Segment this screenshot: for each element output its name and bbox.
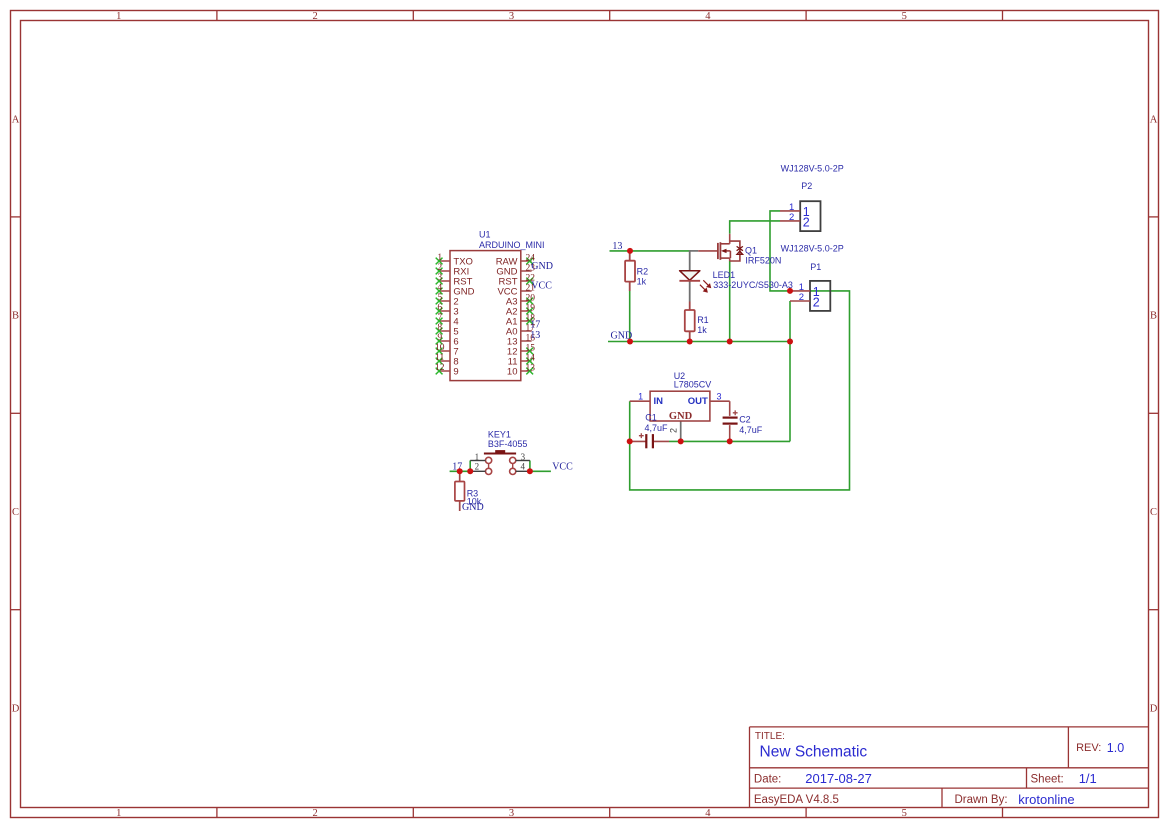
svg-text:Sheet:: Sheet: bbox=[1031, 774, 1064, 786]
svg-text:C: C bbox=[12, 507, 19, 518]
svg-text:P2: P2 bbox=[801, 181, 812, 191]
svg-text:WJ128V-5.0-2P: WJ128V-5.0-2P bbox=[781, 244, 844, 254]
junction node GND/P1 pin2 bbox=[787, 339, 793, 345]
svg-text:3: 3 bbox=[509, 11, 514, 22]
svg-text:8: 8 bbox=[437, 323, 442, 333]
svg-text:4,7uF: 4,7uF bbox=[739, 425, 763, 435]
svg-text:Drawn By:: Drawn By: bbox=[955, 794, 1008, 806]
svg-text:333-2UYC/S530-A3: 333-2UYC/S530-A3 bbox=[713, 280, 793, 290]
svg-text:C2: C2 bbox=[739, 415, 751, 425]
svg-text:13: 13 bbox=[530, 330, 540, 341]
svg-text:3: 3 bbox=[437, 273, 442, 283]
svg-text:2: 2 bbox=[803, 215, 810, 229]
svg-text:4: 4 bbox=[705, 11, 711, 22]
svg-text:3: 3 bbox=[716, 391, 721, 401]
svg-text:12: 12 bbox=[435, 363, 445, 373]
junction node 13/R2 bbox=[627, 248, 633, 254]
svg-text:R1: R1 bbox=[697, 315, 709, 325]
svg-text:2: 2 bbox=[312, 11, 317, 22]
junction node C1/U2 GND bbox=[678, 438, 684, 444]
svg-text:ARDUINO_MINI: ARDUINO_MINI bbox=[479, 240, 545, 250]
svg-text:14: 14 bbox=[525, 353, 535, 363]
svg-text:1: 1 bbox=[475, 452, 480, 462]
svg-text:Q1: Q1 bbox=[745, 245, 757, 255]
svg-text:VCC: VCC bbox=[552, 461, 573, 472]
svg-text:2017-08-27: 2017-08-27 bbox=[805, 771, 872, 786]
junction node 17/R3 bbox=[457, 468, 463, 474]
IC U1 ARDUINO_MINI bbox=[435, 230, 545, 381]
svg-text:IN: IN bbox=[654, 396, 664, 407]
LED LED1 333-2UYC/S530-A3 bbox=[679, 270, 792, 292]
junction node GND/Q1 source bbox=[727, 339, 733, 345]
svg-text:1.0: 1.0 bbox=[1107, 741, 1124, 755]
svg-text:A: A bbox=[1150, 114, 1158, 125]
svg-text:4: 4 bbox=[437, 283, 442, 293]
wire KEY1 pins 3-4 to VCC bbox=[530, 461, 551, 472]
svg-text:9: 9 bbox=[437, 333, 442, 343]
svg-text:2: 2 bbox=[669, 428, 679, 433]
svg-text:C: C bbox=[1150, 507, 1157, 518]
svg-text:KEY1: KEY1 bbox=[488, 430, 511, 440]
junction node GND/R1 bbox=[687, 339, 693, 345]
svg-text:13: 13 bbox=[612, 241, 622, 252]
wire grey LED1 cathode to R1 bbox=[689, 281, 691, 302]
pushbutton KEY1 B3F-4055 bbox=[470, 430, 530, 475]
svg-text:L7805CV: L7805CV bbox=[674, 379, 712, 389]
wire grey to Q1 gate bbox=[690, 250, 699, 252]
connector P1 WJ128V-5.0-2P bbox=[781, 244, 844, 311]
wire grey to LED1 anode bbox=[689, 250, 691, 270]
junction node KEY1 pin 2 bbox=[467, 468, 473, 474]
svg-text:2: 2 bbox=[312, 808, 317, 819]
svg-text:Date:: Date: bbox=[754, 774, 782, 786]
svg-text:A: A bbox=[12, 114, 20, 125]
wire capacitor rail bbox=[669, 440, 790, 442]
wire GND bus down to capacitor rail bbox=[789, 342, 791, 442]
svg-text:C1: C1 bbox=[645, 412, 657, 422]
svg-text:7: 7 bbox=[437, 313, 442, 323]
svg-text:10: 10 bbox=[507, 366, 518, 377]
svg-text:B3F-4055: B3F-4055 bbox=[488, 439, 528, 449]
resistor R1 1k bbox=[685, 302, 709, 342]
wire Q1 source to GND bus bbox=[729, 261, 731, 342]
wire P1 pin 2 to GND bus bbox=[789, 301, 791, 342]
svg-text:3: 3 bbox=[509, 808, 514, 819]
svg-text:11: 11 bbox=[435, 353, 444, 363]
svg-text:krotonline: krotonline bbox=[1018, 792, 1074, 807]
svg-text:VCC: VCC bbox=[531, 280, 552, 291]
svg-text:D: D bbox=[12, 704, 20, 715]
svg-text:2: 2 bbox=[813, 295, 820, 309]
wire GND bus bbox=[608, 341, 790, 343]
svg-text:15: 15 bbox=[525, 343, 535, 353]
svg-text:LED1: LED1 bbox=[713, 270, 736, 280]
junction node C2 bbox=[727, 438, 733, 444]
svg-text:1k: 1k bbox=[637, 276, 647, 286]
svg-text:New Schematic: New Schematic bbox=[760, 744, 868, 761]
svg-text:2: 2 bbox=[475, 462, 480, 472]
svg-text:5: 5 bbox=[902, 808, 907, 819]
svg-text:3: 3 bbox=[521, 452, 526, 462]
svg-text:WJ128V-5.0-2P: WJ128V-5.0-2P bbox=[781, 164, 844, 174]
capacitor C2 4,7uF polarized bbox=[723, 410, 763, 441]
svg-text:OUT: OUT bbox=[688, 396, 708, 407]
svg-text:9: 9 bbox=[453, 366, 458, 377]
svg-text:GND: GND bbox=[462, 502, 484, 513]
resistor R2 1k bbox=[625, 251, 648, 291]
transistor Q1 IRF520N n-channel MOSFET bbox=[698, 234, 781, 265]
svg-text:B: B bbox=[1150, 311, 1157, 322]
wire R2 to GND bus bbox=[629, 291, 631, 342]
resistor R3 10k bbox=[455, 471, 482, 511]
junction node GND/R2 bbox=[627, 339, 633, 345]
svg-text:6: 6 bbox=[437, 303, 442, 313]
svg-text:1: 1 bbox=[638, 391, 643, 401]
svg-text:IRF520N: IRF520N bbox=[745, 255, 781, 265]
svg-text:2: 2 bbox=[799, 292, 804, 303]
wire Q1 drain to P2 pin 2 bbox=[730, 221, 780, 234]
junction node KEY1 pin 4 bbox=[527, 468, 533, 474]
svg-text:5: 5 bbox=[902, 11, 907, 22]
svg-text:GND: GND bbox=[669, 411, 693, 422]
svg-text:2: 2 bbox=[789, 212, 794, 223]
svg-text:4: 4 bbox=[521, 462, 526, 472]
wire grey U2 pin 2 bbox=[680, 421, 682, 441]
svg-text:1/1: 1/1 bbox=[1079, 771, 1097, 786]
svg-text:R2: R2 bbox=[637, 267, 649, 277]
svg-text:B: B bbox=[12, 311, 19, 322]
wire P2 pin 1 to P1 pin 1 bbox=[770, 211, 790, 291]
svg-text:1: 1 bbox=[116, 808, 121, 819]
junction node P1 pin 1 bbox=[787, 288, 793, 294]
svg-text:2: 2 bbox=[437, 263, 442, 273]
wire net 13 horizontal bbox=[610, 250, 690, 252]
wire net 17 to KEY1 pins 1-2 bbox=[450, 461, 471, 472]
svg-text:4,7uF: 4,7uF bbox=[645, 423, 669, 433]
svg-text:TITLE:: TITLE: bbox=[755, 731, 785, 742]
regulator U2 L7805CV bbox=[630, 371, 730, 433]
svg-text:4: 4 bbox=[705, 808, 711, 819]
svg-text:REV:: REV: bbox=[1076, 742, 1101, 754]
svg-text:1: 1 bbox=[116, 11, 121, 22]
svg-text:GND: GND bbox=[531, 261, 553, 272]
svg-text:5: 5 bbox=[437, 293, 442, 303]
svg-text:U1: U1 bbox=[479, 230, 491, 240]
wire P1 pin 1 loop to U2 input bbox=[630, 291, 850, 490]
capacitor C1 4,7uF polarized bbox=[630, 412, 669, 448]
svg-text:1k: 1k bbox=[697, 325, 707, 335]
svg-text:1: 1 bbox=[437, 253, 442, 263]
svg-text:20: 20 bbox=[525, 293, 535, 303]
svg-text:13: 13 bbox=[525, 363, 535, 373]
svg-text:D: D bbox=[1150, 704, 1158, 715]
svg-text:10: 10 bbox=[435, 343, 445, 353]
svg-text:P1: P1 bbox=[810, 262, 821, 272]
junction node C1/U2 input bbox=[627, 438, 633, 444]
connector P2 WJ128V-5.0-2P bbox=[780, 164, 844, 232]
svg-text:EasyEDA V4.8.5: EasyEDA V4.8.5 bbox=[754, 794, 839, 806]
svg-text:19: 19 bbox=[525, 303, 535, 313]
